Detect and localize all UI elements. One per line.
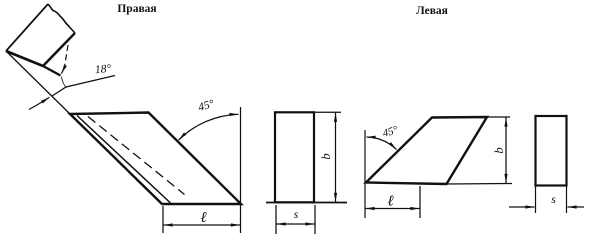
blade face trace line A — [6, 51, 70, 114]
top edge extension (Левая) — [487, 116, 510, 118]
dimension l (Левая): right extension line — [419, 186, 421, 218]
vertical extension line right of parallelogram — [240, 107, 242, 233]
dimension b (Правая) vertical line with arrows — [335, 113, 337, 202]
knife blank lower-right thick edge — [43, 33, 75, 66]
svg-text:Левая: Левая — [416, 5, 448, 17]
45-degree arc (Правая) — [179, 114, 239, 140]
dashed median line — [88, 117, 185, 195]
45-degree arc (Левая) — [367, 137, 397, 150]
dimension l (Левая): dimension line with arrows — [366, 208, 420, 210]
dimension s (Правая): extension lines — [275, 205, 277, 234]
svg-text:Правая: Правая — [117, 3, 156, 15]
svg-text:45°: 45° — [197, 98, 216, 114]
dimension l (Правая): left extension line — [162, 206, 164, 233]
top edge extension to b line — [314, 111, 341, 113]
vertical reference line left of Левая parallelogram — [364, 130, 366, 218]
parallelogram plate (Правая) — [70, 113, 241, 205]
side view rectangle (Левая) — [536, 116, 567, 186]
lower-left pointer arrow to crossing — [29, 97, 50, 109]
svg-text:ℓ: ℓ — [200, 210, 206, 226]
bottom edge extension (Левая) — [447, 183, 513, 186]
dashed vertical leader with down arrow — [65, 45, 69, 67]
svg-text:18°: 18° — [94, 63, 111, 76]
svg-text:b: b — [492, 147, 506, 153]
knife blank top wavy edge — [48, 4, 75, 33]
side view rectangle (Правая) — [275, 112, 314, 202]
blade bevel edge — [43, 66, 61, 76]
bottom edge extended both sides — [266, 202, 347, 204]
svg-text:ℓ: ℓ — [387, 194, 393, 210]
small angle arc near bevel — [62, 77, 67, 88]
knife blank (tilted rectangle), left edge — [6, 4, 48, 51]
svg-text:s: s — [294, 209, 299, 221]
dimension s (Левая): outside arrows — [509, 206, 535, 208]
extension lines below (Левая side view) — [535, 186, 537, 214]
parallelogram plate (Левая) — [366, 117, 487, 184]
svg-text:45°: 45° — [381, 124, 400, 140]
18-degree leader line B — [52, 76, 115, 97]
dimension b (Левая) vertical line with arrows — [505, 118, 507, 184]
knife blank lower-left thick edge — [6, 51, 43, 66]
dimension s (Правая): dimension line — [277, 223, 315, 225]
dimension l (Правая): dimension line with arrows — [164, 224, 241, 226]
svg-text:b: b — [319, 153, 333, 159]
inner parallel line — [77, 116, 171, 204]
svg-text:s: s — [551, 194, 556, 206]
